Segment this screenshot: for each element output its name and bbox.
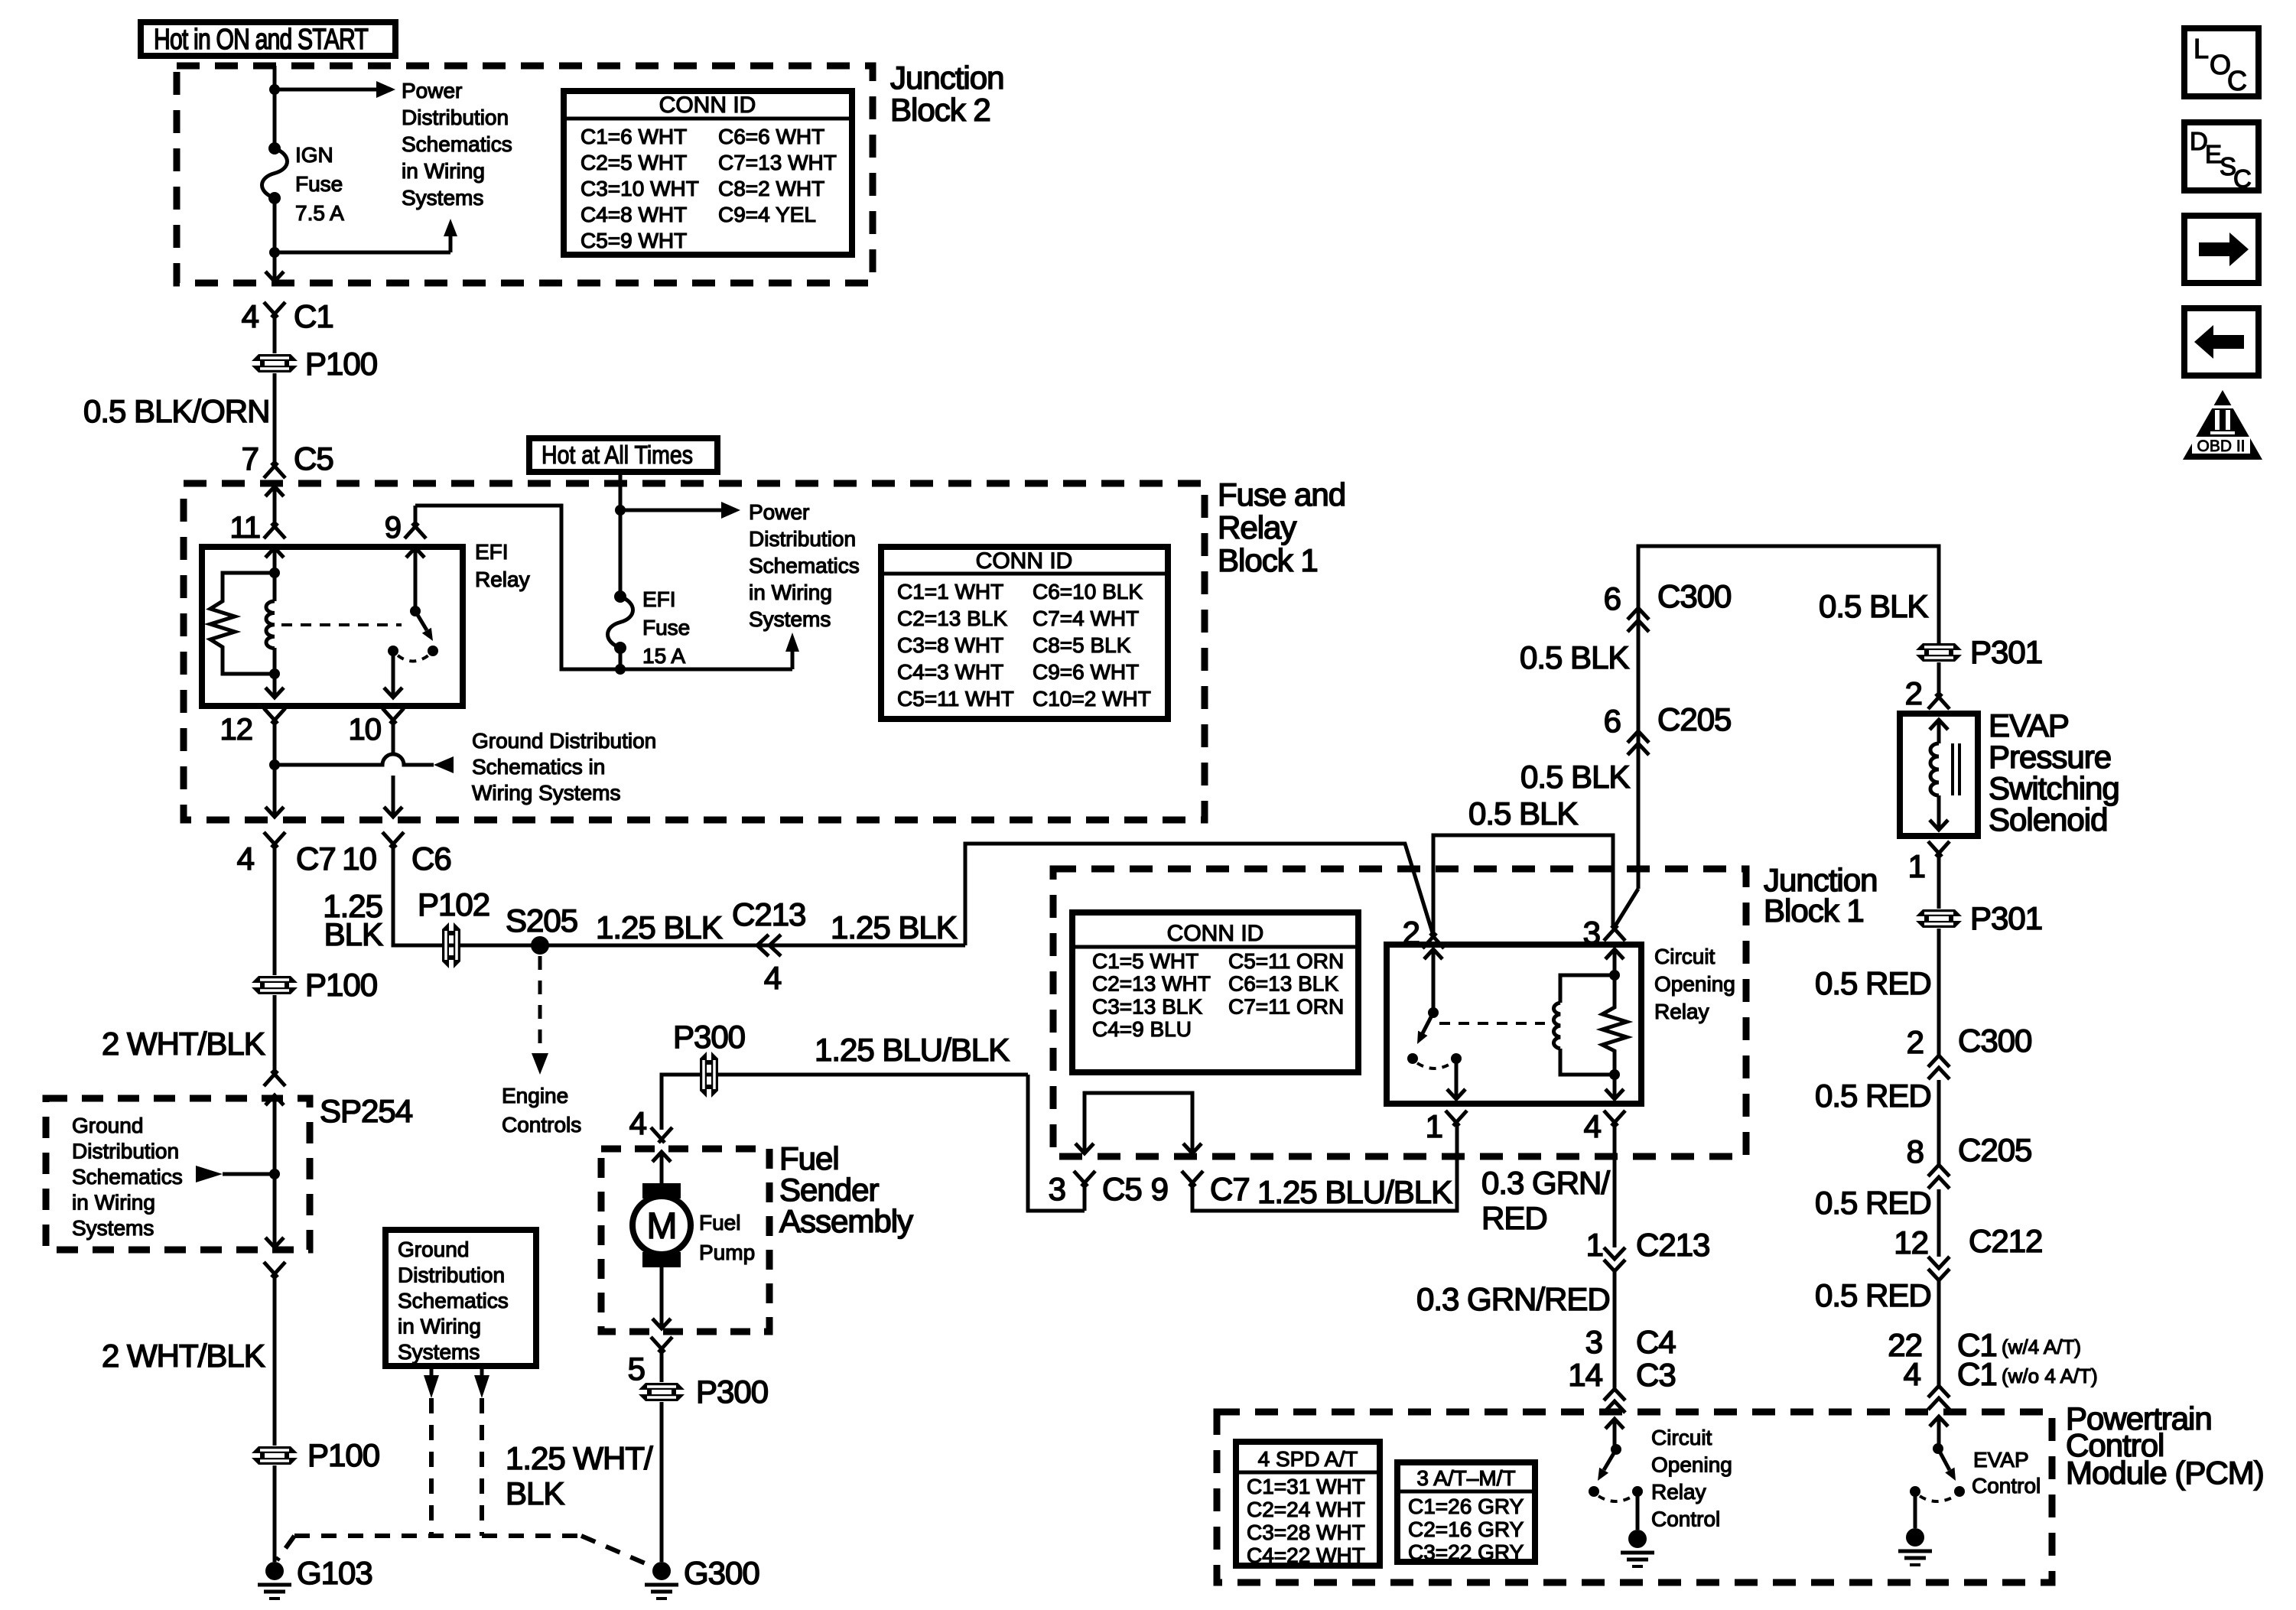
svg-text:Block 2: Block 2	[890, 92, 990, 128]
wire: branch arrow to Power Distribution (JB2)	[275, 88, 376, 92]
svg-text:C213: C213	[732, 896, 805, 932]
wire 0.5 RED column	[1937, 929, 1941, 1055]
svg-text:Block 1: Block 1	[1218, 542, 1318, 578]
SP254 dashed outline	[46, 1098, 310, 1250]
circuit opening relay box	[1387, 945, 1641, 1104]
svg-text:C10=2 WHT: C10=2 WHT	[1033, 687, 1151, 711]
junction node SP254	[269, 1169, 280, 1179]
svg-text:Relay: Relay	[1654, 1000, 1709, 1023]
svg-text:Hot in ON and START: Hot in ON and START	[154, 24, 369, 56]
connector P100 (second)	[252, 976, 298, 994]
connector male arrow at JB2 exit	[265, 272, 284, 281]
connector C212 pin12 inline	[1928, 1257, 1950, 1268]
wire 1.25 BLU/BLK fuel pump feed	[662, 1075, 1085, 1211]
svg-text:CONN ID: CONN ID	[659, 93, 756, 118]
connector P102	[442, 922, 460, 968]
svg-text:C2=13 WHT: C2=13 WHT	[1092, 972, 1211, 996]
svg-text:Schematics: Schematics	[398, 1289, 509, 1312]
PCM EVAP switch dashed arc	[1920, 1496, 1955, 1501]
wire to ground G103	[273, 1465, 277, 1562]
PCM EVAP control switch pivot	[1933, 1443, 1943, 1454]
connector fuel sender pin4 male arrow	[652, 1152, 671, 1162]
PCM EVAP control switch arm	[1938, 1449, 1950, 1470]
svg-text:Ground: Ground	[398, 1238, 469, 1261]
svg-text:3: 3	[1049, 1171, 1065, 1207]
EFI relay box	[202, 547, 463, 706]
connector PCM entry male arrow (COR control)	[1605, 1419, 1624, 1429]
PCM COR control switch arm	[1604, 1449, 1616, 1470]
svg-text:P301: P301	[1970, 634, 2042, 670]
svg-text:6: 6	[1604, 581, 1621, 616]
connector C5 pin 7 female	[264, 463, 285, 478]
svg-text:1.25 BLK: 1.25 BLK	[596, 909, 723, 945]
connector P300 (top, on horizontal wire)	[700, 1052, 718, 1098]
svg-text:C1=26 GRY: C1=26 GRY	[1408, 1495, 1524, 1518]
svg-text:10: 10	[349, 713, 382, 746]
connector C7 pin 4 female	[264, 832, 285, 847]
svg-text:Fuse and: Fuse and	[1218, 476, 1345, 512]
svg-text:Fuel: Fuel	[779, 1140, 839, 1176]
svg-text:Schematics in: Schematics in	[472, 755, 605, 779]
wire pin9 into relay switch	[414, 548, 418, 611]
svg-text:9: 9	[1151, 1171, 1168, 1207]
svg-text:Relay: Relay	[475, 568, 530, 591]
wire COR pin4 down	[1613, 1075, 1617, 1099]
svg-text:Ground: Ground	[72, 1114, 143, 1137]
svg-text:Schematics: Schematics	[402, 132, 512, 156]
connector SP254 entry female	[264, 1071, 285, 1086]
svg-text:P100: P100	[305, 346, 377, 382]
wire to COR control ground	[1636, 1491, 1640, 1530]
svg-text:Controls: Controls	[502, 1113, 581, 1137]
connector male arrow entering block at C5	[265, 486, 284, 496]
connector P100 (top)	[252, 354, 298, 372]
svg-text:EVAP: EVAP	[1989, 707, 2069, 743]
svg-text:2: 2	[1905, 675, 1922, 711]
wire into PCM EVAP switch	[1937, 1416, 1941, 1449]
svg-text:SP254: SP254	[320, 1093, 413, 1129]
off-page arrow from Ground Distribution into SP254	[196, 1166, 223, 1182]
svg-text:12: 12	[220, 713, 253, 746]
connector COR pin 4 female	[1604, 1111, 1625, 1126]
connector C213 inline (pin1)	[1604, 1247, 1625, 1259]
svg-text:EVAP: EVAP	[1973, 1448, 2029, 1472]
svg-text:RED: RED	[1481, 1200, 1547, 1236]
svg-text:C5: C5	[1102, 1171, 1142, 1207]
off-page arrow to Ground Distribution	[434, 756, 454, 773]
connector solenoid pin2 male arrow	[1930, 720, 1948, 730]
svg-text:Distribution: Distribution	[402, 106, 509, 129]
icon OBD II triangle	[2183, 390, 2262, 460]
svg-text:C7=13 WHT: C7=13 WHT	[718, 151, 837, 174]
connector P100 (third)	[252, 1446, 298, 1465]
svg-text:Relay: Relay	[1651, 1480, 1706, 1504]
fuse and relay block 1 dashed outline	[184, 483, 1205, 820]
COR switch arm	[1423, 1013, 1433, 1033]
wire diagonal into connector 3	[1615, 889, 1638, 927]
junction node on IGN feed	[269, 84, 280, 95]
connector C205 pin6 inline	[1628, 731, 1649, 743]
connector solenoid pin 1 female	[1928, 841, 1950, 857]
connector C7 pin 9 female	[1182, 1171, 1203, 1186]
wire solenoid pin1 to P301	[1937, 854, 1941, 909]
EFI relay switch arm	[415, 611, 427, 630]
svg-text:Hot at All Times: Hot at All Times	[541, 441, 693, 469]
svg-text:Fuel: Fuel	[699, 1211, 740, 1234]
connector EFI relay pin 11 male arrow	[265, 548, 284, 558]
svg-text:Distribution: Distribution	[398, 1264, 505, 1287]
svg-text:EFI: EFI	[475, 540, 509, 564]
svg-text:C205: C205	[1657, 701, 1731, 737]
junction block 2 dashed outline	[177, 66, 873, 283]
connector C5 pin 3 female	[1074, 1171, 1095, 1186]
wire into PCM COR control switch	[1613, 1419, 1617, 1449]
icon arrow right	[2184, 216, 2259, 283]
svg-text:in Wiring: in Wiring	[402, 159, 485, 183]
wire to ground G300	[660, 1402, 664, 1562]
connector fuel sender pin 4 female	[651, 1127, 672, 1143]
connector COR pin1 male arrow	[1447, 1089, 1465, 1099]
CONN ID table (junction block 2)	[564, 91, 852, 255]
svg-text:Assembly: Assembly	[779, 1203, 913, 1239]
connector C7 pin9 male arrow (JB1 exit)	[1183, 1143, 1202, 1153]
junction node below IGN fuse	[269, 247, 280, 258]
svg-text:IGN: IGN	[295, 143, 333, 167]
svg-text:0.5 RED: 0.5 RED	[1815, 1185, 1931, 1221]
svg-text:BLK: BLK	[324, 916, 383, 952]
wire pin5 to P300	[660, 1349, 664, 1382]
svg-text:Block 1: Block 1	[1764, 893, 1864, 929]
connector 2 female	[1423, 933, 1444, 948]
svg-text:C300: C300	[1657, 578, 1731, 614]
wire: ground distribution link with hop over pin10	[275, 754, 434, 765]
svg-text:in Wiring: in Wiring	[749, 581, 832, 604]
junction node pin12 ground link	[269, 759, 280, 770]
svg-text:C7=4 WHT: C7=4 WHT	[1033, 607, 1139, 630]
svg-text:G103: G103	[297, 1555, 372, 1591]
PCM EVAP control switch contacts	[1910, 1486, 1920, 1497]
svg-text:Engine: Engine	[502, 1084, 568, 1107]
wire relay pin 10 down	[392, 651, 395, 698]
connector C205 pin8 inline	[1928, 1165, 1950, 1176]
svg-text:0.5 BLK: 0.5 BLK	[1520, 639, 1629, 675]
svg-text:in Wiring: in Wiring	[398, 1315, 481, 1338]
connector pin 10 female below relay	[382, 708, 404, 724]
svg-text:Distribution: Distribution	[749, 527, 856, 551]
svg-text:8: 8	[1907, 1134, 1924, 1169]
svg-text:S205: S205	[506, 903, 577, 938]
wire relay pin 12 down	[273, 674, 277, 698]
svg-text:C3=10 WHT: C3=10 WHT	[581, 177, 699, 200]
svg-text:C6=6 WHT: C6=6 WHT	[718, 125, 824, 148]
connector pin 12 male arrow	[265, 688, 284, 698]
svg-text:0.5 RED: 0.5 RED	[1815, 965, 1931, 1001]
svg-text:CONN ID: CONN ID	[976, 548, 1073, 574]
svg-text:M: M	[647, 1206, 677, 1247]
connector solenoid pin1 male arrow	[1930, 820, 1948, 830]
svg-text:C3=13 BLK: C3=13 BLK	[1092, 994, 1202, 1018]
wire P100 to SP254	[273, 995, 277, 1074]
COR switch dashed travel arc	[1417, 1063, 1452, 1068]
PCM COR switch dashed arc	[1598, 1496, 1633, 1501]
connector C1 pin 4 female	[264, 302, 285, 317]
ground G300	[652, 1562, 671, 1580]
svg-text:P300: P300	[696, 1374, 768, 1410]
svg-text:1: 1	[1908, 848, 1925, 884]
svg-text:C6: C6	[411, 841, 451, 877]
svg-text:C2=5 WHT: C2=5 WHT	[581, 151, 687, 174]
solenoid core lines	[1951, 743, 1954, 795]
wire: branch arrow to Power Distribution schematics (up arrow)	[275, 236, 450, 252]
connector fuel sender pin5 male arrow	[652, 1319, 671, 1329]
svg-text:Power: Power	[749, 500, 809, 524]
wire C7 down to P100	[273, 844, 277, 975]
svg-text:G300: G300	[684, 1555, 759, 1591]
wire C5-3 stem to fuel pump feed	[1083, 1183, 1087, 1211]
svg-text:BLK: BLK	[506, 1475, 564, 1511]
PCM COR control switch contacts	[1589, 1486, 1599, 1497]
svg-text:0.3 GRN/RED: 0.3 GRN/RED	[1416, 1281, 1610, 1317]
svg-text:4: 4	[237, 841, 255, 877]
svg-text:(w/o 4 A/T): (w/o 4 A/T)	[2002, 1364, 2098, 1387]
connector SP254 exit female	[264, 1262, 285, 1277]
connector C300 pin2 inline	[1928, 1055, 1950, 1067]
svg-text:Systems: Systems	[398, 1340, 480, 1364]
connector SP254 entry male arrow	[265, 1095, 284, 1105]
svg-text:Fuse: Fuse	[295, 172, 343, 196]
wire pin12 to block exit	[273, 720, 277, 815]
solenoid coil	[1937, 720, 1941, 743]
svg-text:P102: P102	[418, 886, 489, 922]
EFI relay switch common node	[410, 606, 421, 616]
wire COR pin1 down	[1455, 1059, 1459, 1099]
connector C6 pin 10 female	[382, 832, 404, 847]
svg-text:C1=6 WHT: C1=6 WHT	[581, 125, 687, 148]
svg-text:1.25 BLU/BLK: 1.25 BLU/BLK	[815, 1032, 1010, 1068]
COR switch pivot	[1428, 1007, 1439, 1018]
junction node hot feed	[615, 505, 626, 516]
ground G103	[265, 1562, 284, 1580]
fuse IGN 7.5 A	[262, 148, 288, 198]
svg-text:0.5 RED: 0.5 RED	[1815, 1078, 1931, 1114]
COR actuation dashed link	[1439, 1022, 1545, 1025]
svg-text:0.5 BLK: 0.5 BLK	[1520, 759, 1630, 795]
connector C1 inline at PCM	[1928, 1386, 1950, 1397]
wire motor to pin 5	[660, 1267, 664, 1329]
svg-text:2 WHT/BLK: 2 WHT/BLK	[102, 1026, 265, 1062]
junction block 1 dashed outline	[1053, 869, 1746, 1156]
CONN ID table (fuse and relay block 1)	[881, 547, 1168, 719]
svg-text:Systems: Systems	[72, 1216, 154, 1240]
svg-text:14: 14	[1568, 1357, 1602, 1393]
wire COR pin4 to C213	[1613, 1123, 1617, 1247]
dashed wire: S205 to engine controls	[538, 956, 542, 1053]
label box: Hot at All Times	[529, 438, 717, 472]
COR switch contacts	[1407, 1053, 1418, 1064]
EFI relay switch contacts	[388, 646, 398, 656]
wire pin10 to block exit with hop	[392, 720, 395, 815]
splice S205	[531, 936, 549, 955]
wire C7-9 stem across to COR pin1	[1192, 1123, 1457, 1211]
svg-text:C6=13 BLK: C6=13 BLK	[1228, 972, 1338, 996]
svg-text:15 A: 15 A	[642, 644, 685, 668]
svg-text:1.25 WHT/: 1.25 WHT/	[506, 1440, 653, 1476]
EFI relay internal junction top	[269, 568, 280, 578]
svg-text:0.3 GRN/: 0.3 GRN/	[1481, 1165, 1610, 1201]
svg-text:Circuit: Circuit	[1654, 945, 1715, 968]
wire 0.5 BLK bridge between connectors 2 and 3	[1433, 835, 1613, 935]
connector EFI relay pin 11 female	[264, 523, 285, 538]
connector 3 female	[1604, 925, 1625, 941]
svg-text:L: L	[2194, 33, 2209, 64]
wire to fuel pump motor	[660, 1152, 664, 1186]
svg-text:P300: P300	[673, 1019, 745, 1055]
EVAP pressure switching solenoid box	[1900, 714, 1978, 836]
connector C5 pin3 male arrow (JB1 exit)	[1075, 1143, 1094, 1153]
svg-text:in Wiring: in Wiring	[72, 1191, 155, 1215]
svg-text:Opening: Opening	[1651, 1453, 1732, 1477]
wire: EFI fuse node to relay pin 9	[415, 506, 620, 669]
svg-text:C1: C1	[1957, 1356, 1997, 1392]
connector EFI relay pin 9 male arrow	[406, 548, 424, 558]
svg-text:C: C	[2227, 65, 2247, 96]
svg-text:3: 3	[1585, 1324, 1602, 1360]
connector SP254 exit male arrow	[265, 1238, 284, 1247]
wire: battery feed into IGN fuse	[273, 66, 277, 148]
svg-text:7.5 A: 7.5 A	[295, 201, 344, 225]
wire C6 down and across to junction block 1	[393, 844, 1433, 945]
connector pin 10 male arrow	[384, 688, 402, 698]
svg-text:P301: P301	[1970, 900, 2042, 936]
svg-text:C3=22 GRY: C3=22 GRY	[1408, 1540, 1524, 1564]
wire P301 to solenoid	[1937, 662, 1941, 696]
svg-text:Systems: Systems	[749, 607, 831, 631]
svg-text:9: 9	[385, 511, 401, 545]
EFI relay resistor branch	[210, 573, 275, 674]
svg-text:4: 4	[242, 298, 259, 334]
svg-text:C: C	[2233, 164, 2252, 193]
fuel sender assembly dashed outline	[601, 1149, 769, 1332]
connector COR pin4 male arrow	[1605, 1089, 1624, 1099]
svg-text:Solenoid: Solenoid	[1989, 802, 2107, 838]
svg-text:Pressure: Pressure	[1989, 739, 2111, 775]
svg-text:Fuse: Fuse	[642, 616, 690, 639]
svg-text:CONN ID: CONN ID	[1167, 921, 1264, 946]
wire: EFI fuse output	[619, 648, 623, 669]
svg-text:C8=2 WHT: C8=2 WHT	[718, 177, 824, 200]
svg-text:5: 5	[628, 1351, 645, 1387]
wire SP254 to P100 third	[273, 1274, 277, 1446]
icon arrow left	[2184, 308, 2259, 376]
CONN ID table (junction block 1)	[1072, 912, 1358, 1072]
svg-text:C8=5 BLK: C8=5 BLK	[1033, 633, 1131, 657]
wire pin11 into relay	[273, 548, 277, 573]
svg-text:Systems: Systems	[402, 186, 483, 210]
svg-text:C4=9 BLU: C4=9 BLU	[1092, 1017, 1192, 1041]
svg-text:C7=11 ORN: C7=11 ORN	[1228, 994, 1344, 1018]
svg-text:C4=8 WHT: C4=8 WHT	[581, 203, 687, 226]
svg-text:C2=16 GRY: C2=16 GRY	[1408, 1517, 1524, 1541]
svg-text:Schematics: Schematics	[72, 1165, 183, 1189]
junction node below EFI fuse	[615, 664, 626, 675]
svg-text:3 A/T–M/T: 3 A/T–M/T	[1416, 1466, 1515, 1490]
svg-text:Circuit: Circuit	[1651, 1426, 1712, 1449]
wire C213 to PCM	[1613, 1271, 1617, 1389]
svg-text:4: 4	[1904, 1356, 1921, 1392]
svg-text:C3=8 WHT: C3=8 WHT	[897, 633, 1003, 657]
svg-text:OBD II: OBD II	[2197, 437, 2245, 455]
svg-text:C7: C7	[296, 841, 336, 877]
connector PCM entry male arrow (EVAP)	[1930, 1416, 1948, 1426]
svg-text:C6=10 BLK: C6=10 BLK	[1033, 580, 1143, 603]
svg-text:Control: Control	[1972, 1474, 2041, 1498]
svg-text:11: 11	[229, 511, 260, 545]
svg-text:4: 4	[1584, 1108, 1602, 1144]
svg-text:1.25 BLK: 1.25 BLK	[831, 909, 958, 945]
svg-text:C5=9 WHT: C5=9 WHT	[581, 229, 687, 252]
svg-text:C7: C7	[1210, 1171, 1250, 1207]
arrows from ground distribution box	[430, 1366, 434, 1375]
svg-text:C5=11 ORN: C5=11 ORN	[1228, 949, 1344, 973]
svg-text:1: 1	[1426, 1108, 1442, 1144]
svg-text:12: 12	[1894, 1225, 1928, 1260]
wire connector3 into COR	[1613, 949, 1617, 975]
svg-text:0.5 BLK: 0.5 BLK	[1468, 795, 1578, 831]
svg-text:Module (PCM): Module (PCM)	[2066, 1455, 2264, 1491]
svg-text:C1=31 WHT: C1=31 WHT	[1247, 1475, 1365, 1498]
svg-text:0.5 BLK/ORN: 0.5 BLK/ORN	[83, 393, 269, 429]
ground distribution schematics box	[385, 1230, 536, 1366]
svg-text:4: 4	[764, 960, 782, 996]
table 4 SPD A/T	[1236, 1442, 1380, 1566]
svg-text:C5=11 WHT: C5=11 WHT	[897, 687, 1014, 711]
svg-text:2: 2	[1907, 1024, 1924, 1060]
svg-text:C300: C300	[1958, 1023, 2031, 1059]
svg-text:0.5 RED: 0.5 RED	[1815, 1277, 1931, 1313]
fuse EFI 15 A	[608, 597, 633, 648]
svg-text:P100: P100	[305, 967, 377, 1003]
connector P301 (top)	[1916, 643, 1962, 662]
wire: C5 to EFI relay pin 11	[273, 486, 277, 526]
svg-text:Ground Distribution: Ground Distribution	[472, 729, 656, 753]
dashed ground distribution wires to G103 and G300	[429, 1398, 434, 1536]
wire: branch arrow to Power Distribution (block1)	[620, 509, 721, 512]
connector C4/C3 inline at PCM	[1604, 1389, 1625, 1400]
svg-text:Switching: Switching	[1989, 770, 2119, 806]
svg-text:C213: C213	[1636, 1227, 1709, 1263]
table 3 A/T-M/T	[1397, 1462, 1535, 1562]
svg-text:C4=3 WHT: C4=3 WHT	[897, 660, 1003, 684]
svg-text:4: 4	[629, 1105, 647, 1141]
PCM COR control switch pivot	[1611, 1444, 1621, 1455]
connector fuel sender pin 5 female	[651, 1337, 672, 1352]
svg-text:Power: Power	[402, 79, 462, 102]
svg-text:0.5 BLK: 0.5 BLK	[1819, 588, 1928, 624]
svg-text:Relay: Relay	[1218, 509, 1296, 545]
svg-text:P100: P100	[307, 1437, 379, 1473]
connector 3 male arrow	[1605, 949, 1624, 959]
connector C300 pin6 inline	[1628, 608, 1649, 620]
COR coil branch	[1560, 975, 1615, 1003]
svg-text:Junction: Junction	[890, 60, 1003, 96]
connector 2 male arrow	[1424, 949, 1442, 959]
svg-text:C5: C5	[294, 441, 333, 476]
wire to EVAP control ground	[1914, 1491, 1917, 1528]
wire: branch arrow up to Power Distribution (block1 right)	[620, 652, 792, 669]
wire jumper inside JB1 from C5-3 to C7-9	[1085, 1093, 1192, 1151]
svg-text:Wiring Systems: Wiring Systems	[472, 781, 620, 805]
svg-text:C212: C212	[1969, 1223, 2042, 1259]
